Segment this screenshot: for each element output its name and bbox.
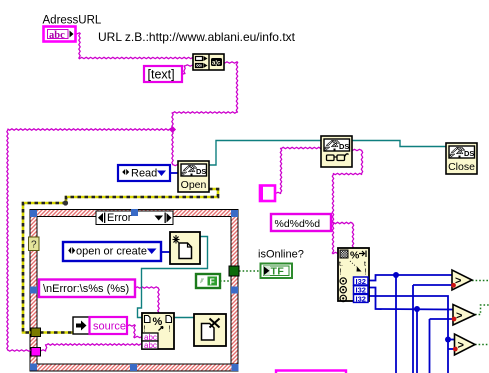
svg-text:DS: DS (464, 149, 474, 158)
svg-text:>: > (456, 310, 462, 322)
svg-text:DS: DS (196, 167, 206, 176)
svg-text:Open: Open (181, 179, 207, 191)
svg-text:URL z.B.:http://www.ablani.eu/: URL z.B.:http://www.ablani.eu/info.txt (98, 30, 296, 44)
svg-text:>: > (455, 275, 461, 287)
svg-text:I32: I32 (356, 277, 366, 286)
svg-text:source: source (93, 321, 126, 333)
svg-text:!: ! (340, 268, 342, 277)
svg-text:%d%d%d: %d%d%d (275, 218, 321, 230)
svg-text:isOnline?: isOnline? (258, 249, 304, 261)
svg-text:I32: I32 (356, 294, 366, 303)
svg-text:abc: abc (144, 341, 157, 350)
svg-text:>: > (458, 340, 464, 352)
svg-text:I32: I32 (356, 286, 366, 295)
svg-text:\nError:\s%s (%s): \nError:\s%s (%s) (43, 283, 129, 295)
svg-text:F: F (210, 277, 215, 287)
svg-text:Error: Error (107, 212, 132, 224)
svg-text:a¦c: a¦c (212, 61, 221, 67)
svg-text:!: ! (365, 268, 367, 277)
svg-text:AdressURL: AdressURL (43, 15, 102, 27)
svg-text:%: % (350, 250, 360, 262)
svg-text:[text]: [text] (148, 68, 175, 82)
svg-text:open or create: open or create (76, 246, 147, 258)
svg-text:!: ! (169, 325, 171, 334)
svg-text:abc: abc (49, 30, 65, 41)
svg-text:TF: TF (271, 266, 285, 278)
svg-text:Close: Close (448, 161, 475, 173)
svg-text:DS: DS (339, 142, 349, 151)
svg-text:%: % (153, 316, 163, 328)
svg-text:?: ? (31, 240, 37, 251)
svg-text:Read: Read (131, 168, 157, 180)
